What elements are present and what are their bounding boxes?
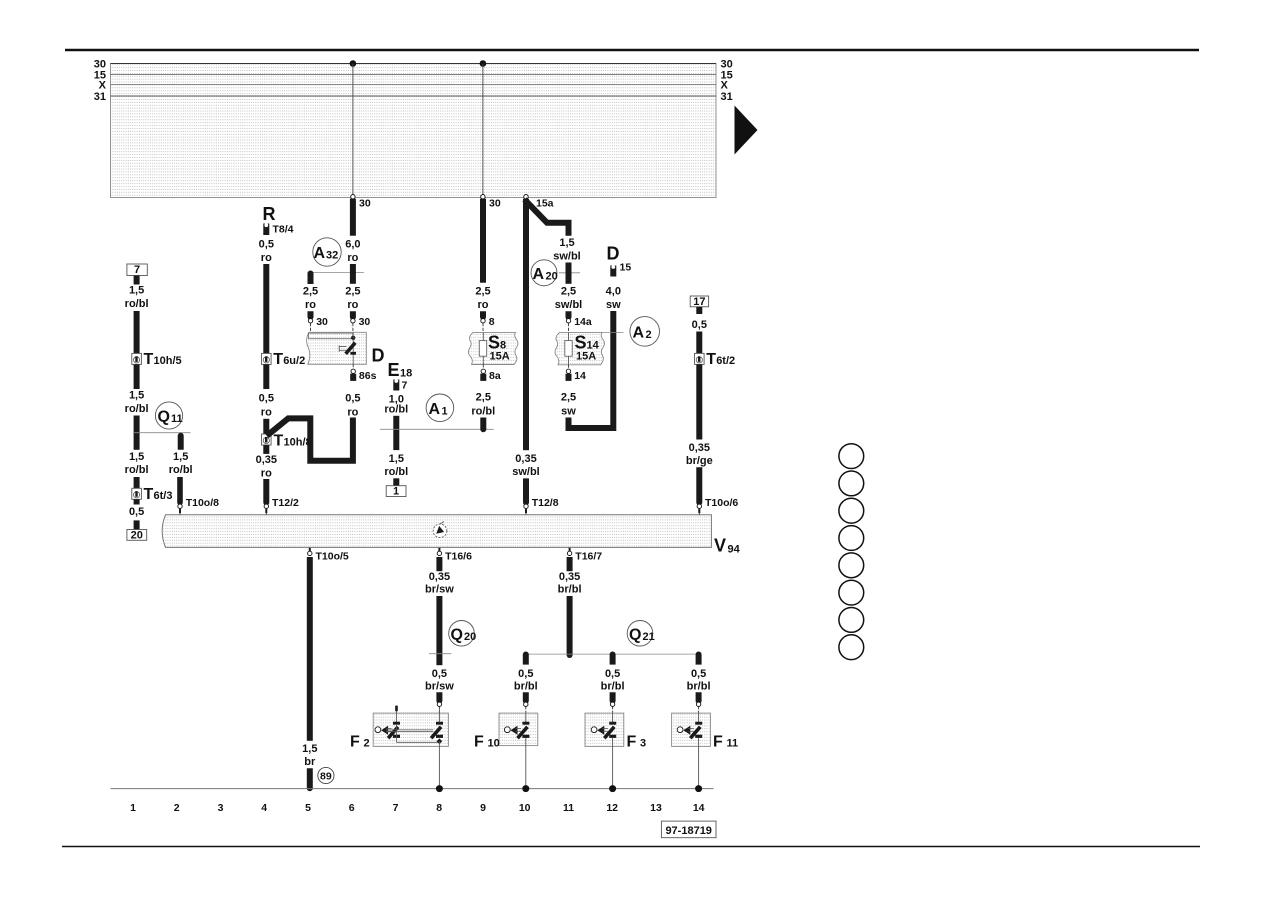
terminal box 20 <box>127 529 147 541</box>
svg-text:8: 8 <box>489 316 495 328</box>
connector T10h/5 <box>132 351 182 368</box>
svg-text:0,5: 0,5 <box>691 668 706 680</box>
svg-text:94: 94 <box>728 544 741 556</box>
svg-text:F: F <box>627 734 637 751</box>
svg-text:T16/6: T16/6 <box>445 551 472 563</box>
wire col1 seg3 <box>134 364 140 389</box>
svg-text:S: S <box>488 332 500 352</box>
svg-text:T: T <box>274 433 284 450</box>
wire label 2,5 ro D-left <box>303 286 318 311</box>
svg-text:6u/2: 6u/2 <box>283 355 305 367</box>
pin 86s below D <box>350 364 376 382</box>
junction Q21 distribution line <box>526 653 699 655</box>
svg-text:Q: Q <box>451 626 463 643</box>
wire col2 seg2 <box>177 477 183 505</box>
svg-text:30: 30 <box>359 316 371 328</box>
svg-text:30: 30 <box>359 198 371 210</box>
svg-text:R: R <box>263 204 276 224</box>
svg-text:T: T <box>144 351 154 368</box>
grid number 3 <box>218 802 224 814</box>
svg-text:10: 10 <box>519 802 531 814</box>
svg-text:11: 11 <box>727 738 739 750</box>
svg-text:F: F <box>350 734 360 751</box>
svg-text:9: 9 <box>480 802 486 814</box>
wire stub below box7 <box>134 276 140 285</box>
label V94 <box>714 536 741 556</box>
wire col14 seg3 <box>696 364 702 439</box>
wire stub above box20 <box>134 520 140 529</box>
pin 30 D-left <box>308 316 328 333</box>
label F2 <box>350 734 370 751</box>
svg-text:2: 2 <box>646 329 652 341</box>
svg-text:ro/bl: ro/bl <box>125 298 149 310</box>
svg-text:10: 10 <box>488 738 500 750</box>
wire label 0,5 br/sw col8 <box>425 668 454 692</box>
wire col5 to earth <box>307 557 313 741</box>
svg-text:17: 17 <box>693 296 705 308</box>
connector T6t/3 <box>132 486 173 503</box>
svg-text:2,5: 2,5 <box>561 391 576 403</box>
svg-text:1,5: 1,5 <box>129 285 144 297</box>
wire F2 to earth rail <box>438 741 440 788</box>
svg-text:14: 14 <box>587 339 600 351</box>
label D (ignition switch) <box>372 346 385 366</box>
svg-text:ro: ro <box>347 299 358 311</box>
svg-text:D: D <box>372 346 385 366</box>
svg-text:br/sw: br/sw <box>425 680 454 692</box>
svg-text:A: A <box>314 245 326 262</box>
svg-text:3: 3 <box>640 738 646 750</box>
svg-text:20: 20 <box>131 529 143 541</box>
svg-text:T8/4: T8/4 <box>273 224 294 236</box>
svg-text:ro: ro <box>261 467 272 479</box>
svg-text:89: 89 <box>320 770 332 782</box>
switch F11 housing <box>672 713 711 746</box>
junction dot on 30 rail col6 <box>350 60 357 67</box>
svg-text:14a: 14a <box>574 316 592 328</box>
wire 15a trunk lower <box>523 478 529 505</box>
wire F10 to earth rail <box>525 738 527 789</box>
svg-text:0,35: 0,35 <box>559 571 580 583</box>
motor E18 label <box>388 360 413 380</box>
grid number 2 <box>174 802 180 814</box>
wire stub col6 <box>350 311 356 320</box>
terminal box 1 <box>386 486 406 498</box>
wire drop inside band col9 <box>482 64 484 198</box>
switch F3 contacts <box>591 713 616 739</box>
wire col8 stub <box>436 557 442 571</box>
wire label 1,5 ro/bl col1 upper <box>125 285 149 310</box>
svg-text:8a: 8a <box>489 370 501 382</box>
wire label 6,0 ro col6 <box>345 239 360 264</box>
ignition switch label D col12 <box>607 244 620 264</box>
svg-text:0,35: 0,35 <box>689 442 710 454</box>
svg-text:V: V <box>714 536 726 556</box>
earth point 89 <box>318 767 334 783</box>
svg-text:31: 31 <box>94 91 106 103</box>
wire stub col9 <box>480 311 486 320</box>
svg-text:br/ge: br/ge <box>686 455 713 467</box>
svg-text:ro: ro <box>478 299 489 311</box>
svg-text:11: 11 <box>563 802 574 814</box>
svg-text:Q: Q <box>158 409 170 426</box>
wire label 1,5 ro/bl col2 <box>169 451 193 476</box>
wire label 0,35 br/bl col11b <box>558 571 582 595</box>
svg-text:T12/8: T12/8 <box>532 497 559 509</box>
svg-text:br/bl: br/bl <box>558 584 582 596</box>
svg-text:0,35: 0,35 <box>256 454 277 466</box>
svg-text:T10o/6: T10o/6 <box>705 497 738 509</box>
wire col4 seg3 <box>263 364 269 389</box>
svg-text:6: 6 <box>349 802 355 814</box>
wire col1 seg5 <box>134 477 140 488</box>
bus label 15 left <box>94 69 106 81</box>
svg-text:12: 12 <box>606 802 618 814</box>
terminal box 7 <box>127 264 147 276</box>
junction designation A20 <box>531 260 558 286</box>
wire label 4,0 sw col12 <box>606 286 621 311</box>
connector T6u/2 <box>262 351 306 368</box>
svg-text:D: D <box>607 244 620 264</box>
current track circle 8 <box>839 635 864 660</box>
connector T6t/2 <box>695 351 736 368</box>
svg-text:ro/bl: ro/bl <box>384 404 408 416</box>
grid number 13 <box>650 802 662 814</box>
ignition switch D contact set <box>339 332 356 364</box>
label F10 <box>474 734 500 751</box>
wire col1 seg2 <box>134 311 140 353</box>
connector T10h/8 <box>262 433 312 450</box>
wire col10 lower <box>523 692 529 703</box>
wire col4 seg2 <box>263 264 269 353</box>
svg-text:sw/bl: sw/bl <box>555 299 583 311</box>
wire label 0,5 br/bl col10 <box>514 668 538 692</box>
pin T16/7 below V94 <box>567 548 602 563</box>
grid number 4 <box>261 802 267 814</box>
wire col14 seg4 <box>696 467 702 505</box>
label S8 15A <box>488 332 510 362</box>
svg-text:A: A <box>533 266 545 283</box>
svg-text:20: 20 <box>546 270 558 282</box>
wire F11 to earth rail <box>698 738 700 789</box>
terminal box 17 <box>690 296 708 308</box>
wire stub below box17 <box>696 307 702 314</box>
wire label 0,5 col1 <box>129 506 144 518</box>
pin T10o/8 <box>178 497 219 515</box>
pin into F3 <box>610 702 614 713</box>
pin into F10 <box>524 702 528 713</box>
wire label 2,5 ro col9 <box>475 286 490 311</box>
bus label X left <box>99 80 107 92</box>
wire label 1,5 br col5 <box>302 743 317 768</box>
label F3 <box>627 734 647 751</box>
junction Q20 reference line <box>429 653 451 655</box>
page bottom border <box>62 846 1200 848</box>
svg-text:20: 20 <box>464 631 476 643</box>
svg-text:T16/7: T16/7 <box>575 551 602 563</box>
grid number 6 <box>349 802 355 814</box>
svg-text:0,35: 0,35 <box>515 453 536 465</box>
svg-text:0,5: 0,5 <box>432 668 447 680</box>
grid number 8 <box>436 802 442 814</box>
switch F2 contacts <box>375 706 443 745</box>
svg-text:sw/bl: sw/bl <box>553 250 581 262</box>
svg-text:X: X <box>721 80 729 92</box>
wire label 0,5 br/bl col14 <box>687 668 711 692</box>
grid number 9 <box>480 802 486 814</box>
pin 14a of S14 <box>566 316 592 333</box>
junction designation A2 <box>630 317 660 347</box>
svg-text:T: T <box>273 351 283 368</box>
earth junction col12 <box>609 785 616 792</box>
svg-text:ro/bl: ro/bl <box>125 464 149 476</box>
pin 15 of D <box>610 262 631 277</box>
svg-text:1,5: 1,5 <box>173 451 188 463</box>
svg-text:15: 15 <box>620 262 632 274</box>
svg-text:97-18719: 97-18719 <box>665 825 712 837</box>
svg-text:A: A <box>429 401 441 418</box>
svg-text:0,5: 0,5 <box>605 668 620 680</box>
svg-text:1,5: 1,5 <box>559 237 574 249</box>
svg-text:F: F <box>474 734 484 751</box>
svg-text:86s: 86s <box>359 370 377 382</box>
svg-text:2,5: 2,5 <box>561 286 576 298</box>
svg-text:T: T <box>144 486 154 503</box>
svg-text:0,5: 0,5 <box>345 393 360 405</box>
pin into F2 <box>437 702 441 713</box>
bus label 30 right <box>721 58 733 70</box>
earth rail <box>111 788 714 790</box>
svg-text:2,5: 2,5 <box>475 286 490 298</box>
wire col5 seg2 <box>307 768 313 791</box>
switch F11 contacts <box>677 713 702 739</box>
svg-text:30: 30 <box>316 316 328 328</box>
current track circle 1 <box>839 444 864 469</box>
svg-text:1: 1 <box>393 486 399 498</box>
svg-text:Q: Q <box>629 626 641 643</box>
svg-text:8: 8 <box>500 339 506 351</box>
bus label 30 left <box>94 58 106 70</box>
svg-text:15A: 15A <box>576 351 596 363</box>
pin T10o/5 below V94 <box>308 548 349 563</box>
svg-text:br: br <box>304 756 316 768</box>
junction A32 reference line <box>308 272 365 274</box>
diagram number box 97-18719 <box>661 821 716 838</box>
svg-text:sw/bl: sw/bl <box>512 466 540 478</box>
wire label 1,5 ro/bl col1 mid <box>125 390 149 416</box>
svg-text:ro/bl: ro/bl <box>169 464 193 476</box>
svg-text:2,5: 2,5 <box>303 286 318 298</box>
svg-text:A: A <box>633 324 645 341</box>
grid number 5 <box>305 802 311 814</box>
label F11 <box>713 734 738 751</box>
junction A2 reference line <box>602 331 623 333</box>
wire col11b main <box>567 596 573 658</box>
grid number 11 <box>563 802 574 814</box>
wire label 0,35 sw/bl trunk <box>512 453 540 478</box>
svg-text:1,5: 1,5 <box>129 390 144 402</box>
svg-text:X: X <box>99 80 107 92</box>
pin T12/2 <box>264 497 299 515</box>
wire label 2,5 ro/bl col9 <box>471 391 495 417</box>
wire branch Q11 to T10o/8 <box>178 433 184 450</box>
svg-text:15a: 15a <box>536 198 554 210</box>
fuse S8 element <box>479 332 486 364</box>
current track circle 4 <box>839 526 864 551</box>
wire stub col11 <box>566 311 572 320</box>
fuse S14 element <box>565 332 572 364</box>
direction arrow <box>735 106 758 155</box>
svg-text:7: 7 <box>134 264 140 276</box>
bus label 31 left <box>94 91 106 103</box>
svg-text:5: 5 <box>305 802 311 814</box>
wire label 0,5 ro col4 upper <box>259 239 274 264</box>
switch F2 housing <box>373 713 448 746</box>
wire label 1,0 ro/bl col7 <box>384 393 408 415</box>
wire drop inside band col6 <box>352 64 354 198</box>
svg-text:0,35: 0,35 <box>429 571 450 583</box>
bus label X right <box>721 80 729 92</box>
pin into F11 <box>696 702 700 713</box>
grid number 7 <box>393 802 399 814</box>
svg-text:15A: 15A <box>490 351 510 363</box>
wire S14-14 to D-15 U link <box>569 311 614 428</box>
wire stub D-left <box>308 311 314 320</box>
wire label 2,5 ro col6 <box>345 286 360 311</box>
svg-text:ro: ro <box>261 252 272 264</box>
wire col14 lower <box>696 692 702 703</box>
svg-text:6,0: 6,0 <box>345 239 360 251</box>
svg-text:1,5: 1,5 <box>389 453 404 465</box>
svg-text:1: 1 <box>130 802 136 814</box>
pin 8 of S8 <box>481 316 495 333</box>
wire branch to F11 <box>696 652 702 665</box>
earth junction col14 <box>695 785 702 792</box>
pin 15a at bus band <box>524 195 554 210</box>
svg-text:13: 13 <box>650 802 662 814</box>
svg-text:br/sw: br/sw <box>425 584 454 596</box>
label S14 15A <box>575 332 600 362</box>
wire label 0,35 br/sw col8 <box>425 571 454 595</box>
svg-text:6t/2: 6t/2 <box>716 355 735 367</box>
current track circle 7 <box>839 608 864 633</box>
wire branch to F10 <box>523 652 529 665</box>
junction designation Q11 <box>155 402 182 429</box>
wire branch to F3 <box>610 652 616 665</box>
wire col11 seg2 <box>566 263 572 284</box>
V94 motor symbol <box>433 522 447 538</box>
switch F10 contacts <box>504 713 529 739</box>
svg-text:sw: sw <box>561 405 576 417</box>
svg-text:T10o/8: T10o/8 <box>186 497 219 509</box>
current track circle 3 <box>839 498 864 523</box>
wire col12 lower <box>610 692 616 703</box>
svg-text:4: 4 <box>261 802 267 814</box>
svg-text:ro: ro <box>347 252 358 264</box>
pin 14 of S14 <box>566 365 587 382</box>
bus label 31 right <box>721 91 733 103</box>
wire label 0,5 br/bl col12 <box>601 668 625 692</box>
grid number 1 <box>130 802 136 814</box>
wire from D 86s elbow to T10h/8 <box>267 418 353 461</box>
current track circle 6 <box>839 580 864 605</box>
svg-text:6t/3: 6t/3 <box>154 490 173 502</box>
svg-text:7: 7 <box>402 380 408 392</box>
svg-text:T: T <box>706 351 716 368</box>
junction dot on 30 rail col9 <box>480 60 487 67</box>
svg-text:11: 11 <box>171 413 183 425</box>
svg-text:10h/5: 10h/5 <box>154 355 182 367</box>
connector T8/4 <box>263 223 293 235</box>
pin T16/6 below V94 <box>437 548 472 563</box>
wire 15a branch diagonal <box>525 200 569 236</box>
current track circle 2 <box>839 471 864 496</box>
svg-text:S: S <box>575 332 587 352</box>
svg-text:2: 2 <box>364 738 370 750</box>
svg-text:0,5: 0,5 <box>518 668 533 680</box>
pin 30 col9 at bus band <box>481 195 501 210</box>
wire label 1,5 ro/bl col7 <box>384 453 408 478</box>
switch F3 housing <box>585 713 624 746</box>
grid number 10 <box>519 802 531 814</box>
wire label 2,5 sw col11 lower <box>561 391 576 417</box>
grid number 14 <box>693 802 705 814</box>
wire col11b stub <box>567 557 573 571</box>
pin 8a of S8 <box>480 365 501 383</box>
ignition switch D housing <box>307 332 367 364</box>
svg-text:31: 31 <box>721 91 733 103</box>
svg-text:sw: sw <box>606 299 621 311</box>
pin 30 col6 at bus band <box>351 195 371 210</box>
wire 15a trunk upper <box>523 199 529 451</box>
wire label 1,5 ro/bl col1 lower <box>125 451 149 476</box>
wire col8 main <box>436 596 442 665</box>
wire col6 from bus 30 <box>350 199 356 236</box>
svg-text:32: 32 <box>326 250 338 262</box>
svg-text:2,5: 2,5 <box>345 286 360 298</box>
svg-text:0,5: 0,5 <box>259 393 274 405</box>
junction A20 reference line <box>559 272 580 274</box>
svg-text:T12/2: T12/2 <box>272 497 299 509</box>
svg-text:1: 1 <box>442 405 448 417</box>
svg-text:18: 18 <box>400 368 412 380</box>
pin 30 D-right <box>351 316 371 333</box>
svg-text:ro/bl: ro/bl <box>471 405 495 417</box>
svg-text:E: E <box>388 360 400 380</box>
svg-text:T10o/5: T10o/5 <box>316 551 349 563</box>
svg-text:14: 14 <box>693 802 705 814</box>
wire label 2,5 sw/bl col11 <box>555 286 583 311</box>
grid number 12 <box>606 802 618 814</box>
svg-text:0,5: 0,5 <box>259 239 274 251</box>
svg-text:ro: ro <box>261 407 272 419</box>
bus band 30/15/X/31 <box>111 64 717 198</box>
junction Q11 reference line <box>133 432 191 434</box>
svg-text:21: 21 <box>643 631 655 643</box>
pin 7 of E18 <box>393 379 407 392</box>
svg-text:0,5: 0,5 <box>692 319 707 331</box>
svg-text:1,5: 1,5 <box>302 743 317 755</box>
svg-text:3: 3 <box>218 802 224 814</box>
wire col1 seg6 <box>134 499 140 504</box>
wire col4 seg4 <box>263 419 269 434</box>
svg-text:br/bl: br/bl <box>601 680 625 692</box>
wire col14 seg2 <box>696 332 702 354</box>
svg-text:F: F <box>713 734 723 751</box>
fuse S14 housing <box>555 332 605 364</box>
bus label 15 right <box>721 69 733 81</box>
svg-text:30: 30 <box>489 198 501 210</box>
